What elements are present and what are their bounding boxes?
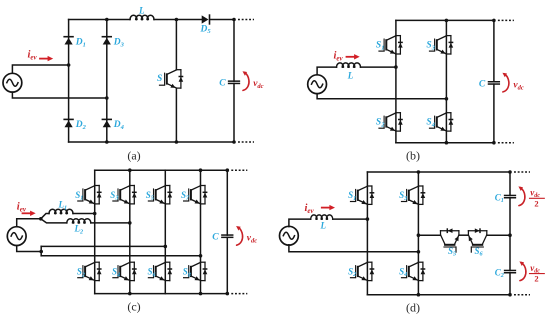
- transistor S6 (c): [148, 262, 172, 280]
- wire: dashed continuation bottom right (c): [231, 293, 247, 295]
- wire: return wire to leg4 midpoint: [41, 255, 200, 257]
- wire: AC bottom terminal to bridge right midpoint: [12, 92, 106, 98]
- transistor S1 (c): [78, 186, 102, 204]
- node: top rail leg2 (c): [128, 168, 132, 172]
- diode D2: [64, 119, 73, 127]
- svg-text:2: 2: [534, 198, 538, 208]
- wire: AC top to leg1 midpoint with inductor (d): [289, 219, 368, 227]
- diode D3: [102, 37, 111, 45]
- wire: capacitor branch (d): [509, 172, 511, 295]
- node: bottom rail leg4 (c): [199, 292, 203, 296]
- current arrow (c): [23, 211, 36, 216]
- capacitor C2 (d): [505, 270, 516, 272]
- wire: branch to L2: [41, 219, 67, 223]
- transistor S2 (c): [78, 262, 102, 280]
- wire: dashed continuation bottom right (a): [238, 141, 254, 143]
- inductor L (b): [337, 63, 361, 67]
- node: leg4 midpoint (c): [199, 254, 203, 258]
- node: leg2 midpoint branch (d): [417, 233, 421, 237]
- wire: leg4 vertical (c): [200, 170, 202, 293]
- node: bottom rail leg2 (c): [128, 292, 132, 296]
- transistor S5 (d): [441, 228, 459, 252]
- wire: input bottom vertical tie: [40, 246, 42, 255]
- wire: AC top to leg1 midpoint with inductor: [317, 67, 396, 75]
- node: input bottom (c): [39, 250, 43, 254]
- current arrow (a): [40, 56, 53, 61]
- wire: L1 to leg1 midpoint: [73, 213, 95, 215]
- svg-text:(a): (a): [127, 149, 140, 163]
- transistor S1 (d): [351, 186, 375, 204]
- node: top rail leg2 (d): [417, 170, 421, 174]
- transistor S4 (c): [113, 262, 137, 280]
- svg-text:L: L: [320, 221, 327, 231]
- node: top rail cap (c): [226, 168, 230, 172]
- svg-text:C: C: [212, 233, 219, 243]
- node: top rail leg4 (c): [199, 168, 203, 172]
- node: bottom rail cap (d): [508, 293, 512, 297]
- wire: top rail (b): [396, 19, 494, 21]
- transistor S6 (d): [468, 228, 486, 252]
- node: bottom rail cap (b): [492, 141, 496, 145]
- wire: top rail inductor to diode D5: [154, 19, 202, 21]
- inductor L (d): [311, 215, 333, 219]
- transistor S1 (b): [379, 36, 403, 54]
- wire: AC bottom to leg2 (d): [289, 245, 419, 252]
- node: leg2 AC connection (d): [417, 250, 421, 254]
- svg-text:C: C: [219, 79, 226, 89]
- wire: AC bottom to input node (c): [17, 246, 42, 252]
- node: bottom rail leg2 (b): [445, 141, 449, 145]
- wire: switch leg emitter: [175, 88, 177, 142]
- wire: S5 to S6: [459, 234, 468, 236]
- wire: dashed continuation top right (b): [498, 19, 514, 21]
- transistor S3 (b): [430, 36, 454, 54]
- wire: leg1 vertical (d): [366, 172, 368, 295]
- svg-text:L: L: [138, 5, 145, 15]
- wire: bridge right leg: [106, 20, 108, 143]
- wire: branch to L1: [41, 214, 49, 219]
- wire: AC top to input node (c): [17, 219, 41, 227]
- capacitor C (a): [229, 81, 240, 83]
- voltage arrow v_dc/2 upper (d): [518, 186, 524, 205]
- inductor L1 (c): [49, 209, 73, 213]
- transistor S4 (d): [402, 262, 426, 280]
- wire: switch leg collector: [175, 20, 177, 70]
- current arrow (b): [347, 54, 360, 59]
- wire: return wire to leg3 midpoint: [41, 245, 165, 247]
- transistor S5 (c): [148, 186, 172, 204]
- node: bottom rail cap (c): [226, 292, 230, 296]
- inductor L (a): [130, 15, 154, 19]
- node: top rail cap (d): [508, 170, 512, 174]
- node: leg1 midpoint (d): [366, 217, 370, 221]
- node: output top: [232, 18, 236, 22]
- wire: dashed continuation bottom right (d): [514, 294, 530, 296]
- wire: L2 to leg2 midpoint: [91, 222, 130, 224]
- transistor S8 (c): [184, 262, 208, 280]
- transistor S4 (b): [430, 113, 454, 131]
- node: bridge top right: [105, 18, 109, 22]
- wire: bridge left leg: [68, 20, 70, 143]
- wire: top rail (d): [367, 171, 510, 173]
- node: switch top: [175, 18, 179, 22]
- transistor S3 (d): [402, 186, 426, 204]
- voltage arrow v_dc (a): [243, 71, 249, 90]
- node: input top (c): [39, 217, 43, 221]
- wire: bottom rail (c): [95, 293, 228, 295]
- wire: top rail segment bridge to inductor: [69, 19, 130, 21]
- node: output bottom: [232, 140, 236, 144]
- node: top rail cap (b): [492, 19, 496, 23]
- wire: bottom rail (b): [396, 142, 494, 144]
- wire: AC bottom to leg2 midpoint (b): [317, 94, 446, 99]
- wire: bottom rail (a): [69, 141, 234, 143]
- node: leg1 midpoint (c): [93, 212, 97, 216]
- svg-text:S: S: [157, 74, 162, 84]
- wire: dashed continuation bottom right (b): [498, 142, 514, 144]
- diode D5: [202, 15, 210, 24]
- node: capacitor midpoint (d): [508, 233, 512, 237]
- label v_dc/2 upper (d): [530, 188, 545, 209]
- current arrow (d): [322, 205, 335, 210]
- node: bridge right midpoint: [105, 96, 109, 100]
- node: bottom rail switch: [175, 140, 179, 144]
- capacitor C (c): [222, 235, 233, 237]
- node: bottom rail leg2 (d): [417, 293, 421, 297]
- capacitor C1 (d): [505, 195, 516, 197]
- transistor S3 (c): [113, 186, 137, 204]
- wire: dashed continuation top right (a): [238, 19, 254, 21]
- AC source (c): [7, 227, 26, 246]
- diode D4: [102, 119, 111, 127]
- node: leg1 midpoint (b): [394, 65, 398, 69]
- node: leg2 midpoint (c): [128, 221, 132, 225]
- svg-text:C: C: [479, 79, 486, 89]
- wire: leg1 vertical (b): [395, 20, 397, 142]
- wire: leg2 vertical (d): [417, 172, 419, 295]
- svg-text:(d): (d): [406, 301, 420, 315]
- voltage arrow v_dc (b): [502, 73, 508, 92]
- wire: bottom rail (d): [367, 294, 510, 296]
- inductor L2 (c): [67, 219, 91, 223]
- transistor S2 (d): [351, 262, 375, 280]
- wire: top rail (c): [95, 169, 228, 171]
- transistor S (a): [160, 70, 184, 88]
- label v_dc/2 lower (d): [530, 263, 545, 284]
- transistor S2 (b): [379, 113, 403, 131]
- voltage arrow v_dc/2 lower (d): [519, 261, 525, 280]
- node: leg3 midpoint (c): [164, 245, 168, 249]
- wire: leg1 vertical (c): [94, 170, 96, 293]
- wire: dashed continuation top right (d): [514, 171, 530, 173]
- node: top rail leg2 (b): [445, 19, 449, 23]
- node: bridge left midpoint: [67, 63, 71, 67]
- wire: leg2 vertical (c): [129, 170, 131, 293]
- transistor S7 (c): [184, 186, 208, 204]
- wire: dashed continuation top right (c): [231, 169, 247, 171]
- wire: leg2 to S5: [418, 234, 440, 236]
- wire: AC top terminal to bridge left midpoint: [12, 65, 68, 73]
- wire: leg2 vertical (b): [445, 20, 447, 142]
- node: leg2 midpoint (b): [445, 97, 449, 101]
- svg-text:(b): (b): [406, 149, 420, 163]
- wire: capacitor branch (c): [226, 170, 228, 293]
- node: bottom rail bridge right: [105, 140, 109, 144]
- AC source (a): [3, 73, 22, 92]
- wire: output capacitor branch: [233, 20, 235, 143]
- svg-text:(c): (c): [127, 300, 140, 314]
- diode D1: [64, 37, 73, 45]
- svg-text:L: L: [347, 71, 354, 81]
- voltage arrow v_dc (c): [236, 226, 242, 245]
- wire: S6 to capacitor midpoint: [487, 234, 510, 236]
- AC source (b): [308, 75, 327, 94]
- wire: top rail D5 to output node: [210, 19, 234, 21]
- wire: capacitor branch (b): [493, 20, 495, 142]
- svg-text:2: 2: [534, 274, 538, 284]
- wire: leg3 vertical (c): [164, 170, 166, 293]
- capacitor C (b): [489, 82, 500, 84]
- AC source (d): [280, 226, 299, 245]
